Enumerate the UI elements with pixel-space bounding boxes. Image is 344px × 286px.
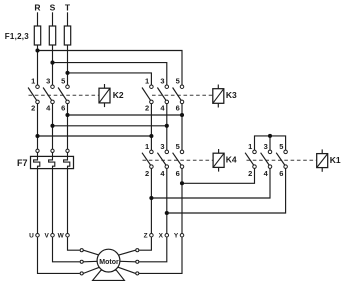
- svg-text:5: 5: [176, 142, 180, 151]
- svg-text:2: 2: [145, 104, 149, 113]
- svg-text:K3: K3: [226, 90, 237, 100]
- svg-text:X: X: [159, 233, 164, 240]
- svg-text:S: S: [50, 3, 56, 13]
- svg-text:6: 6: [61, 104, 65, 113]
- svg-text:K1: K1: [330, 155, 341, 165]
- svg-text:2: 2: [145, 169, 149, 178]
- svg-text:3: 3: [160, 77, 164, 86]
- svg-text:V: V: [44, 233, 49, 240]
- svg-text:Y: Y: [174, 233, 179, 240]
- svg-text:Motor: Motor: [99, 259, 119, 266]
- svg-text:2: 2: [31, 104, 35, 113]
- svg-text:1: 1: [145, 77, 149, 86]
- svg-text:Z: Z: [144, 233, 148, 240]
- svg-text:U: U: [29, 233, 34, 240]
- svg-text:6: 6: [176, 104, 180, 113]
- svg-text:1: 1: [248, 142, 252, 151]
- svg-text:2: 2: [248, 169, 252, 178]
- svg-text:K2: K2: [113, 90, 124, 100]
- svg-text:K4: K4: [226, 155, 237, 165]
- svg-text:W: W: [58, 233, 65, 240]
- svg-text:5: 5: [279, 142, 283, 151]
- svg-text:5: 5: [176, 77, 180, 86]
- svg-text:6: 6: [279, 169, 283, 178]
- svg-text:1: 1: [31, 77, 35, 86]
- svg-text:3: 3: [46, 77, 50, 86]
- svg-text:5: 5: [61, 77, 65, 86]
- svg-text:F1,2,3: F1,2,3: [5, 32, 29, 41]
- svg-text:1: 1: [145, 142, 149, 151]
- svg-text:T: T: [65, 3, 71, 13]
- svg-text:3: 3: [160, 142, 164, 151]
- svg-text:R: R: [34, 3, 40, 13]
- svg-text:F7: F7: [17, 158, 28, 168]
- svg-text:6: 6: [176, 169, 180, 178]
- svg-text:3: 3: [264, 142, 268, 151]
